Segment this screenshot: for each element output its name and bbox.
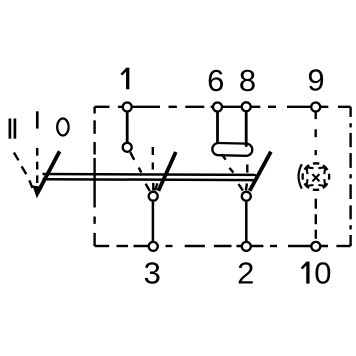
position marker 0 <box>57 119 68 136</box>
dashed wire from terminal 9 to lamp <box>315 129 317 155</box>
position marker II <box>10 119 15 139</box>
dashed center-position line above contact 3 <box>152 147 154 170</box>
dashed center-position line above contact 2 <box>246 165 248 173</box>
wire: stem of fixed contact 1 <box>126 109 129 142</box>
dashed alternate-position line from bridge to contact 2 <box>222 154 234 172</box>
terminal circle 3 <box>149 242 158 251</box>
contact pivot circle of terminal 3 <box>149 192 158 201</box>
terminal circle 10 <box>311 242 320 251</box>
wire: stub below terminal 9 <box>315 109 317 119</box>
wire: terminal 2 lead <box>245 202 248 242</box>
pin label 10 <box>302 256 332 291</box>
pin label 1 <box>121 68 127 90</box>
movable contact blade of terminal 2 <box>250 152 271 191</box>
wire: terminal 3 lead <box>152 202 155 242</box>
contact pivot circle of terminal 2 <box>242 192 251 201</box>
svg-text:2: 2 <box>237 255 254 290</box>
wire: dash-dot enclosure border, left edge <box>93 107 95 246</box>
terminal circle 1 <box>123 103 132 112</box>
position marker I <box>36 111 39 128</box>
svg-text:0: 0 <box>314 256 331 291</box>
svg-text:9: 9 <box>307 62 324 97</box>
bridge contact capsule between 6 and 8 <box>212 143 252 156</box>
svg-text:6: 6 <box>207 63 224 98</box>
wire: stem of terminal 6 <box>216 109 219 144</box>
terminal circle 9 <box>311 103 320 112</box>
dashed actuator travel line to position II <box>14 153 33 189</box>
movable contact blade of terminal 3 <box>158 152 175 191</box>
actuator lever (toggle) with arrowhead <box>32 151 59 198</box>
wire: dash-dot enclosure border, bottom edge <box>95 245 351 247</box>
wire: stem of terminal 8 <box>245 109 248 147</box>
wire: dash-dot enclosure border, right edge <box>349 107 351 246</box>
svg-text:3: 3 <box>144 256 161 291</box>
terminal circle 8 <box>242 102 251 111</box>
dashed wire from lamp to terminal 10 <box>315 199 317 239</box>
terminal circle 2 <box>242 242 251 251</box>
svg-text:8: 8 <box>239 63 256 98</box>
mechanical link bar (double line) <box>43 174 257 180</box>
fixed contact point below terminal 1 <box>123 143 132 152</box>
position traces (crow's foot) above contact 2 <box>239 183 247 190</box>
wire: dash-dot enclosure border, top edge <box>95 106 351 108</box>
illumination lamp (dashed circle with radiating X) <box>299 163 330 190</box>
dashed actuator travel line to position I <box>36 148 38 183</box>
position traces (crow's foot) above contact 3 <box>146 183 158 191</box>
dashed alternate-position line from contact 1 to contact 3 <box>130 152 141 172</box>
terminal circle 6 <box>213 103 222 112</box>
